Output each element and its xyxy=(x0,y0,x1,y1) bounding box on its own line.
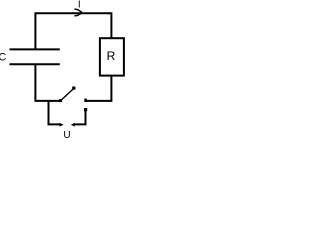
svg-text:C: C xyxy=(0,51,6,63)
svg-text:U: U xyxy=(63,130,70,138)
svg-text:R: R xyxy=(107,49,116,63)
svg-text:I: I xyxy=(78,0,81,11)
